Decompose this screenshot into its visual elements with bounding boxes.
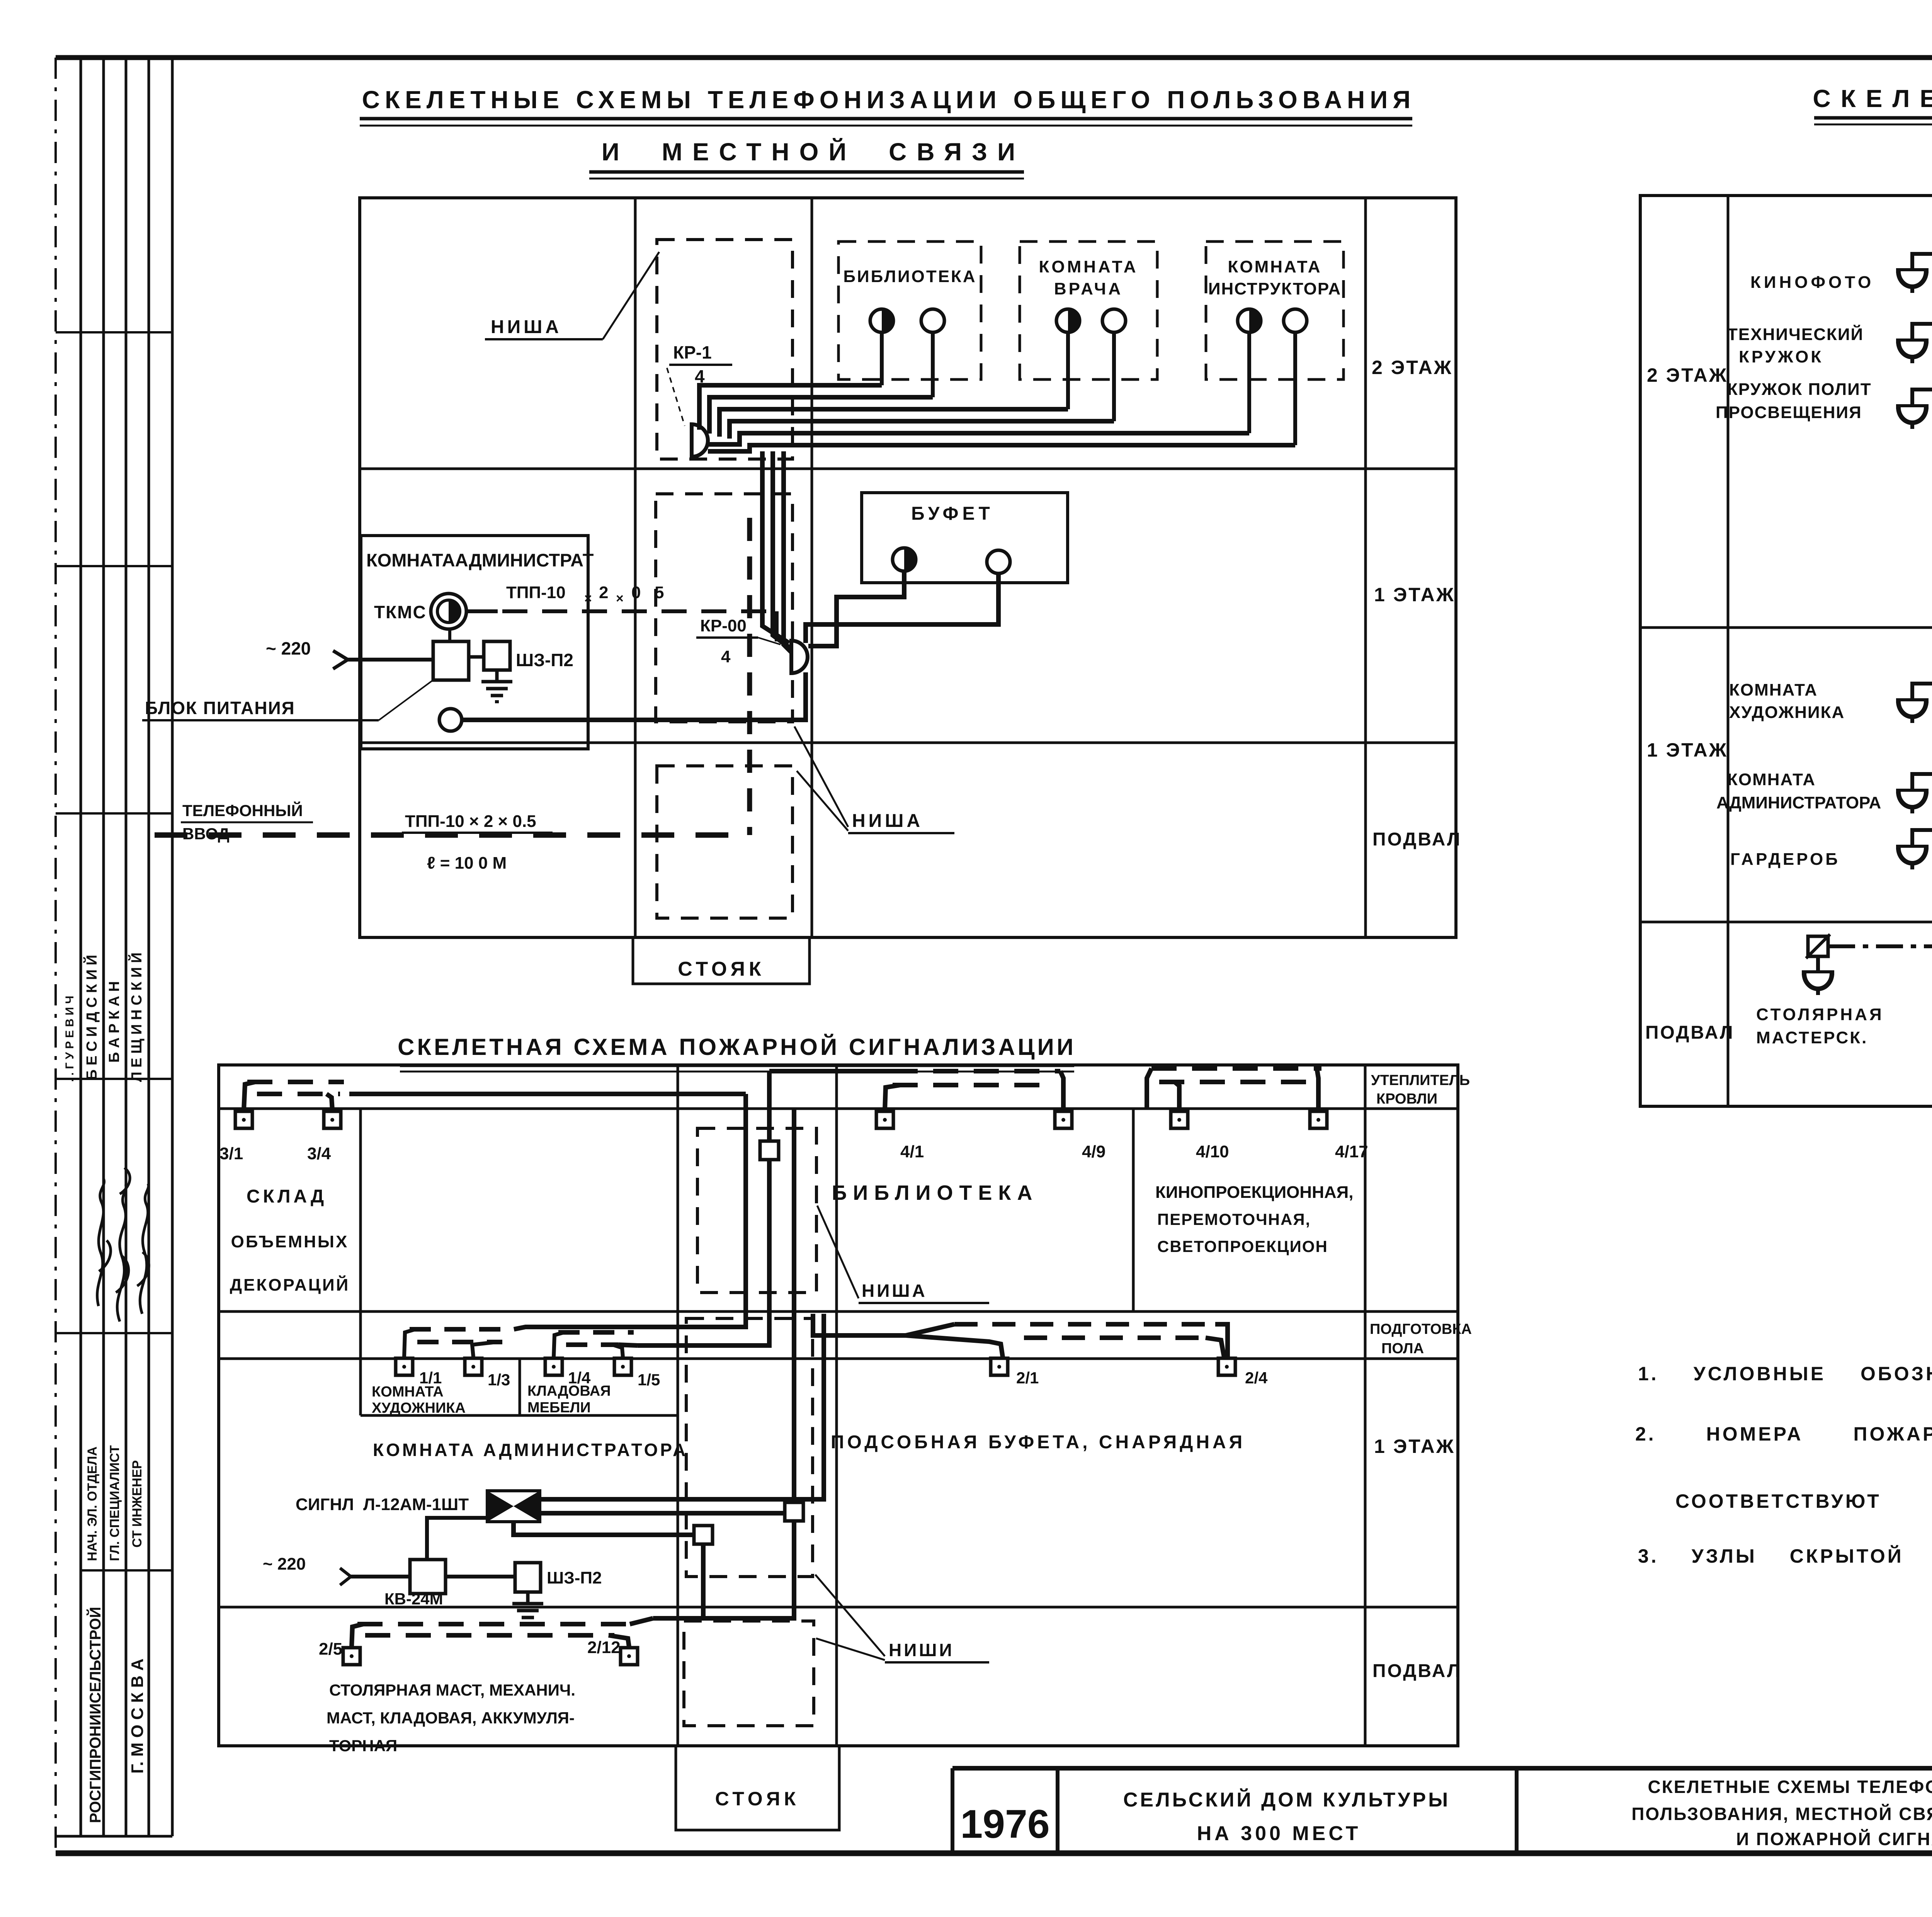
floor prep line bottom: [219, 1357, 1458, 1360]
basement wire: [1828, 944, 1932, 948]
wire Кинофото: [1912, 254, 1932, 270]
svg-text:4/17: 4/17: [1335, 1142, 1368, 1161]
svg-text:ИНСТРУКТОРА: ИНСТРУКТОРА: [1208, 279, 1341, 298]
svg-text:Б Е С И Д С К И Й: Б Е С И Д С К И Й: [83, 955, 100, 1080]
junction KR-00: [791, 641, 808, 673]
svg-text:КОМНАТА: КОМНАТА: [1228, 257, 1322, 276]
detector 4/9: [1055, 1111, 1072, 1128]
svg-text:СКЕЛЕТНАЯ СХЕМА РАДИОФИКАЦИИ: СКЕЛЕТНАЯ СХЕМА РАДИОФИКАЦИИ: [1813, 85, 1932, 112]
floors label column line: [1727, 196, 1730, 1106]
svg-text:2. НОМЕРА ПОЖАРНЫХ ИЗВЕЩАТЕЛЕЙ: 2. НОМЕРА ПОЖАРНЫХ ИЗВЕЩАТЕЛЕЙ НА СХЕМЕ: [1635, 1423, 1932, 1445]
power supply box: [433, 641, 469, 680]
fork to buffet loop: [906, 1324, 954, 1335]
svg-text:КР-1: КР-1: [673, 342, 712, 362]
speaker Кинофото: [1896, 270, 1929, 293]
junction J1: [694, 1526, 713, 1544]
filter box ШЗ-П2: [484, 641, 510, 670]
svg-text:2/4: 2/4: [1245, 1369, 1268, 1387]
detector 2/4: [1218, 1358, 1235, 1375]
svg-text:СТ ИНЖЕНЕР: СТ ИНЖЕНЕР: [130, 1460, 145, 1548]
wire between boxes: [469, 655, 484, 659]
svg-text:4/1: 4/1: [900, 1142, 924, 1161]
wire Кружок полит: [1912, 390, 1932, 407]
title block top rule: [952, 1766, 1932, 1771]
svg-text:1 ЭТАЖ: 1 ЭТАЖ: [1374, 584, 1455, 606]
svg-text:5: 5: [655, 583, 664, 602]
wire 2fl to instructor 2: [708, 445, 1295, 451]
svg-text:Б А Р К А Н: Б А Р К А Н: [106, 981, 122, 1063]
svg-text:ПОЛА: ПОЛА: [1381, 1340, 1424, 1357]
svg-text:ТКМС: ТКМС: [374, 602, 427, 622]
svg-text:МАСТЕРСК.: МАСТЕРСК.: [1756, 1028, 1868, 1047]
buffet room box: [862, 493, 1068, 583]
svg-text:КРУЖОК: КРУЖОК: [1739, 347, 1823, 366]
svg-text:СТОЛЯРНАЯ: СТОЛЯРНАЯ: [1756, 1005, 1884, 1024]
speaker Технический кружок: [1896, 341, 1929, 363]
svg-text:КРОВЛИ: КРОВЛИ: [1376, 1091, 1437, 1107]
svg-text:КЛАДОВАЯ: КЛАДОВАЯ: [527, 1383, 611, 1399]
detector 4/1: [876, 1111, 893, 1128]
floor prep line top: [219, 1310, 1458, 1313]
svg-text:АДМИНИСТРАТОРА: АДМИНИСТРАТОРА: [1716, 793, 1881, 812]
floors label column line: [1364, 1065, 1367, 1746]
room box Комната инструктора: [1206, 242, 1344, 379]
riser column line left: [677, 1065, 679, 1746]
wire KV to bell: [427, 1518, 487, 1560]
local phone circle: [439, 709, 462, 731]
detector 1/5: [614, 1358, 631, 1375]
riser bundle wire b: [773, 451, 791, 648]
signature 1: [97, 1179, 111, 1306]
svg-text:Л Е Щ И Н С К И Й: Л Е Щ И Н С К И Й: [128, 953, 145, 1082]
floor line 2/1: [1640, 626, 1932, 629]
detector 4/10: [1171, 1111, 1188, 1128]
ground under ШЗ-П2: [481, 670, 512, 702]
svg-text:1/5: 1/5: [638, 1371, 660, 1389]
svg-text:СЕЛЬСКИЙ ДОМ КУЛЬТУРЫ: СЕЛЬСКИЙ ДОМ КУЛЬТУРЫ: [1123, 1788, 1450, 1811]
svg-text:КОМНАТА АДМИНИСТРАТОРА: КОМНАТА АДМИНИСТРАТОРА: [373, 1440, 688, 1460]
svg-text:МАСТ, КЛАДОВАЯ, АККУМУЛЯ-: МАСТ, КЛАДОВАЯ, АККУМУЛЯ-: [327, 1709, 575, 1727]
riser column line right: [811, 198, 813, 937]
basement loop dashed: [357, 1622, 630, 1626]
detector 3/1: [235, 1111, 252, 1128]
svg-text:СКЕЛЕТНЫЕ СХЕМЫ ТЕЛЕФОНИЗАЦИИ: СКЕЛЕТНЫЕ СХЕМЫ ТЕЛЕФОНИЗАЦИИ ОБЩЕГО: [1648, 1777, 1932, 1797]
fire niche dashed 1 floor: [686, 1318, 813, 1577]
floor line 2/1: [360, 468, 1456, 470]
svg-text:ДЕКОРАЦИЙ: ДЕКОРАЦИЙ: [230, 1275, 350, 1294]
svg-text:ПОДСОБНАЯ БУФЕТА, СНАРЯДНАЯ: ПОДСОБНАЯ БУФЕТА, СНАРЯДНАЯ: [831, 1432, 1245, 1453]
hook to 4/1: [885, 1085, 900, 1110]
riser bundle wire a: [762, 451, 789, 643]
svg-text:БИБЛИОТЕКА: БИБЛИОТЕКА: [832, 1181, 1039, 1204]
TKMC symbol: [431, 594, 466, 629]
loop 1/4-1/5 dashed: [558, 1330, 634, 1335]
svg-text:3. УЗЛЫ СКРЫТОЙ ПРОВОДКИ ДАНЫ: 3. УЗЛЫ СКРЫТОЙ ПРОВОДКИ ДАНЫ НА ЛИСТЕ С…: [1638, 1545, 1932, 1567]
junction J0: [760, 1141, 779, 1160]
svg-text:2 ЭТАЖ: 2 ЭТАЖ: [1647, 364, 1728, 386]
telephone buffet 2: [987, 550, 1010, 573]
bell symbol: [487, 1491, 514, 1522]
svg-text:×: ×: [616, 591, 624, 606]
fire riser bundle v4: [541, 1314, 824, 1499]
attic loop group 2 dashed: [893, 1069, 1060, 1073]
fire riser bundle v5: [792, 1109, 796, 1502]
sidebar vertical rules: [80, 58, 82, 1836]
svg-text:. . Г У Р Е В И Ч: . . Г У Р Е В И Ч: [63, 996, 76, 1082]
fire riser bundle v2: [638, 1071, 769, 1345]
storeroom column divider: [359, 1109, 362, 1311]
junction KR-1: [692, 424, 708, 457]
svg-text:СВЕТОПРОЕКЦИОН: СВЕТОПРОЕКЦИОН: [1157, 1237, 1328, 1255]
wire Технический кружок: [1912, 324, 1932, 341]
svg-text:СКЕЛЕТНЫЕ СХЕМЫ ТЕЛЕФОНИЗАЦИ: СКЕЛЕТНЫЕ СХЕМЫ ТЕЛЕФОНИЗАЦИИ ОБЩЕГО ПОЛ…: [362, 86, 1415, 114]
J2 down wire: [653, 1521, 794, 1618]
svg-text:2/5: 2/5: [319, 1640, 342, 1658]
svg-text:КОМНАТА: КОМНАТА: [1727, 770, 1816, 789]
svg-text:КОМНАТААДМИНИСТРАТ: КОМНАТААДМИНИСТРАТ: [366, 550, 594, 570]
signature 3: [137, 1184, 149, 1314]
svg-text:1976: 1976: [960, 1802, 1049, 1847]
svg-text:×: ×: [584, 591, 592, 606]
wire 2fl to library 2: [709, 397, 933, 434]
svg-text:СТОЛЯРНАЯ МАСТ, МЕХАНИЧ.: СТОЛЯРНАЯ МАСТ, МЕХАНИЧ.: [329, 1681, 575, 1699]
loop feeds: [514, 1327, 634, 1329]
niche dashed box 1 floor: [656, 494, 793, 722]
floor line 1/basement: [1640, 921, 1932, 924]
detector 1/3: [465, 1358, 482, 1375]
svg-text:НИША: НИША: [852, 811, 923, 831]
svg-text:ВРАЧА: ВРАЧА: [1054, 279, 1123, 298]
svg-text:~ 220: ~ 220: [266, 638, 311, 658]
telephone library 1: [870, 309, 893, 332]
wire 2fl to instructor 1: [708, 433, 1249, 444]
svg-text:ТЕЛЕФОННЫЙ: ТЕЛЕФОННЫЙ: [182, 801, 303, 820]
fire niche dashed box attic: [697, 1128, 816, 1293]
svg-text:КИНОФОТО: КИНОФОТО: [1750, 273, 1874, 292]
svg-text:НАЧ. ЭЛ. ОТДЕЛА: НАЧ. ЭЛ. ОТДЕЛА: [85, 1446, 100, 1561]
detector 3/4: [324, 1111, 341, 1128]
wire local phone to KR-00: [462, 672, 806, 720]
riser bundle wire c: [784, 451, 792, 653]
riser trunk bold dashed: [747, 518, 752, 835]
border top: [56, 55, 1932, 60]
detector 2/1: [991, 1358, 1008, 1375]
svg-text:И МЕСТНОЙ СВЯЗИ: И МЕСТНОЙ СВЯЗИ: [602, 138, 1025, 166]
svg-text:4/9: 4/9: [1082, 1142, 1105, 1161]
svg-text:ТОРНАЯ: ТОРНАЯ: [329, 1737, 397, 1755]
svg-text:2 ЭТАЖ: 2 ЭТАЖ: [1372, 357, 1453, 378]
svg-text:БИБЛИОТЕКА: БИБЛИОТЕКА: [843, 267, 976, 286]
telephone instructor 2: [1284, 309, 1307, 332]
svg-text:1 ЭТАЖ: 1 ЭТАЖ: [1647, 739, 1728, 761]
loop 1/1-1/3 dashed: [410, 1327, 514, 1332]
svg-text:НИША: НИША: [491, 317, 562, 337]
svg-text:2: 2: [599, 583, 608, 602]
attic loop group 3 dashed: [1151, 1066, 1321, 1071]
detector 2/12: [621, 1648, 638, 1665]
wire KV to ШЗ-П2: [446, 1575, 515, 1579]
svg-text:1. УСЛОВНЫЕ ОБОЗНАЧЕНИЯ ДАНЫ Н: 1. УСЛОВНЫЕ ОБОЗНАЧЕНИЯ ДАНЫ НА ЛИСТЕ С-…: [1638, 1363, 1932, 1385]
svg-text:Г. М О С К В А: Г. М О С К В А: [128, 1658, 147, 1774]
svg-text:ПЕРЕМОТОЧНАЯ,: ПЕРЕМОТОЧНАЯ,: [1157, 1210, 1311, 1228]
svg-text:0: 0: [631, 583, 641, 602]
detector 1/1: [396, 1358, 413, 1375]
svg-text:ОБЪЕМНЫХ: ОБЪЕМНЫХ: [231, 1232, 349, 1251]
svg-text:ТЕХНИЧЕСКИЙ: ТЕХНИЧЕСКИЙ: [1727, 324, 1864, 344]
floors label column line: [1364, 198, 1367, 937]
floor line 1/basement: [360, 742, 1456, 744]
1 floor: wire Комната художника: [1912, 684, 1932, 701]
svg-text:ТПП-10 × 2 × 0.5: ТПП-10 × 2 × 0.5: [405, 812, 536, 831]
connector group3 drop: [1147, 1068, 1151, 1109]
wire 2fl to doctor 2: [730, 421, 1114, 439]
svg-text:4/10: 4/10: [1196, 1142, 1229, 1161]
svg-text:ПОДВАЛ: ПОДВАЛ: [1372, 829, 1462, 850]
svg-text:ПРОСВЕЩЕНИЯ: ПРОСВЕЩЕНИЯ: [1716, 403, 1862, 422]
wire Комната администратора: [1912, 774, 1932, 791]
telephone scheme outer frame: [360, 198, 1456, 937]
svg-text:КОМНАТА: КОМНАТА: [372, 1384, 444, 1400]
svg-text:ℓ = 10 0 М: ℓ = 10 0 М: [427, 854, 507, 873]
svg-text:УТЕПЛИТЕЛЬ: УТЕПЛИТЕЛЬ: [1371, 1072, 1470, 1089]
svg-text:1/3: 1/3: [488, 1371, 510, 1389]
riser column line left: [634, 198, 637, 937]
telephone buffet 1: [893, 548, 916, 571]
attic trunk wire b: [769, 1069, 893, 1073]
basement floor line: [219, 1606, 1458, 1609]
fire scheme outer frame: [219, 1065, 1458, 1746]
svg-text:СКЛАД: СКЛАД: [247, 1186, 327, 1207]
svg-text:СТОЯК: СТОЯК: [678, 958, 765, 980]
svg-text:БЛОК ПИТАНИЯ: БЛОК ПИТАНИЯ: [145, 698, 295, 718]
riser column line right: [835, 1065, 838, 1746]
svg-text:НИША: НИША: [862, 1281, 927, 1301]
border left dash-dot: [54, 58, 57, 1853]
svg-text:ПОДВАЛ: ПОДВАЛ: [1645, 1022, 1735, 1043]
svg-text:3/1: 3/1: [219, 1144, 243, 1163]
room box Комната администратора: [361, 536, 588, 749]
svg-text:КОМНАТА: КОМНАТА: [1039, 257, 1138, 276]
svg-text:~ 220: ~ 220: [263, 1555, 306, 1573]
svg-text:СТОЯК: СТОЯК: [715, 1788, 800, 1810]
svg-text:4: 4: [721, 647, 731, 666]
detector 4/17: [1310, 1111, 1327, 1128]
svg-text:ГЛ. СПЕЦИАЛИСТ: ГЛ. СПЕЦИАЛИСТ: [107, 1445, 122, 1561]
riser extension box: [633, 937, 810, 984]
speaker Комната администратора: [1896, 791, 1929, 813]
KV-24M box: [410, 1560, 446, 1594]
basement: transformer P1: [1806, 934, 1830, 958]
riser extension box: [676, 1746, 839, 1830]
wire TKMC to KR-00 dashed with label ТПП-10х2х0,5: [466, 609, 498, 613]
svg-text:КР-00: КР-00: [700, 616, 747, 635]
wire bell bottom to J1: [514, 1522, 694, 1535]
filter box ШЗ-П2 fire: [515, 1563, 541, 1592]
signature 2: [116, 1168, 130, 1322]
svg-text:КИНОПРОЕКЦИОННАЯ,: КИНОПРОЕКЦИОННАЯ,: [1155, 1183, 1353, 1202]
svg-text:2/12: 2/12: [587, 1638, 621, 1657]
svg-text:МЕБЕЛИ: МЕБЕЛИ: [527, 1400, 591, 1416]
svg-text:ПОДГОТОВКА: ПОДГОТОВКА: [1370, 1321, 1472, 1337]
fire niche dashed basement: [684, 1621, 814, 1726]
svg-text:1 ЭТАЖ: 1 ЭТАЖ: [1374, 1436, 1455, 1457]
svg-text:НА 300 МЕСТ: НА 300 МЕСТ: [1197, 1822, 1361, 1845]
svg-text:2/1: 2/1: [1016, 1369, 1039, 1387]
telephone doctor 2: [1102, 309, 1126, 332]
sidebar horizontal dividers: [56, 331, 172, 333]
attic trunk wire a: [349, 1092, 746, 1096]
wire 2fl to library 1: [699, 385, 882, 430]
svg-text:ШЗ-П2: ШЗ-П2: [547, 1568, 602, 1587]
J1 down wire: [701, 1544, 706, 1618]
junction J2: [785, 1502, 803, 1521]
attic ceiling line: [219, 1107, 1458, 1110]
detector 1/4: [545, 1358, 562, 1375]
fire riser bundle v3: [813, 1314, 906, 1335]
svg-text:КОМНАТА: КОМНАТА: [1729, 680, 1818, 699]
niche dashed box basement: [657, 766, 793, 918]
room box Библиотека: [838, 242, 981, 379]
svg-text:СООТВЕТСТВУЮТ НОМЕРАМ НА ПЛАНА: СООТВЕТСТВУЮТ НОМЕРАМ НА ПЛАНАХ: [1675, 1490, 1932, 1512]
telephone entry cable dashed: [155, 832, 749, 838]
svg-text:ПОЛЬЗОВАНИЯ, МЕСТНОЙ СВЯЗИ, РА: ПОЛЬЗОВАНИЯ, МЕСТНОЙ СВЯЗИ, РАДИОФИКАЦИИ: [1631, 1804, 1932, 1824]
speaker Кружок полит: [1896, 407, 1929, 429]
wire Гардероб: [1912, 830, 1932, 847]
telephone instructor 1: [1238, 309, 1261, 332]
speaker Комната художника: [1896, 701, 1929, 723]
attic loop group 1 dashed: [247, 1080, 344, 1084]
buffet loop dashed bottom: [1024, 1335, 1206, 1340]
hook to 3/4: [327, 1094, 332, 1110]
svg-text:НИШИ: НИШИ: [889, 1640, 954, 1660]
detector 2/5: [343, 1648, 360, 1665]
svg-text:СИГНЛ: СИГНЛ: [296, 1495, 354, 1514]
svg-text:3/4: 3/4: [307, 1144, 331, 1163]
niche dashed box 2 floor: [657, 240, 793, 459]
buffet loop dashed top: [954, 1322, 1215, 1327]
hook to 4/17: [1317, 1068, 1318, 1110]
svg-text:КРУЖОК ПОЛИТ: КРУЖОК ПОЛИТ: [1727, 380, 1872, 399]
speaker Гардероб: [1896, 847, 1929, 869]
svg-text:Л-12АМ-1ШТ: Л-12АМ-1ШТ: [363, 1495, 469, 1514]
svg-text:РОСГИПРОНИИСЕЛЬСТРОЙ: РОСГИПРОНИИСЕЛЬСТРОЙ: [86, 1607, 104, 1823]
radio scheme outer frame: [1640, 196, 1932, 1106]
svg-text:ПОДВАЛ: ПОДВАЛ: [1372, 1661, 1462, 1681]
hook to 4/10: [1175, 1082, 1179, 1110]
room box Комната врача: [1020, 242, 1157, 379]
telephone library 2: [921, 309, 944, 332]
hook to 4/9: [1060, 1071, 1063, 1110]
svg-text:СКЕЛЕТНАЯ СХЕМА ПОЖАРНОЙ СИ: СКЕЛЕТНАЯ СХЕМА ПОЖАРНОЙ СИГНАЛИЗАЦИИ: [398, 1034, 1076, 1060]
svg-text:И ПОЖАРНОЙ СИГНАЛИЗАЦИИ: И ПОЖАРНОЙ СИГНАЛИЗАЦИИ: [1736, 1829, 1932, 1849]
sidebar bottom rule: [56, 1835, 172, 1838]
svg-text:ХУДОЖНИКА: ХУДОЖНИКА: [1729, 703, 1845, 722]
svg-text:ШЗ-П2: ШЗ-П2: [516, 650, 573, 670]
svg-text:ГАРДЕРОБ: ГАРДЕРОБ: [1730, 850, 1840, 869]
svg-text:БУФЕТ: БУФЕТ: [911, 503, 994, 524]
svg-text:ХУДОЖНИКА: ХУДОЖНИКА: [372, 1400, 466, 1416]
svg-text:КВ-24М: КВ-24М: [384, 1590, 443, 1608]
title block dividers: [951, 1768, 954, 1853]
wire 2fl to doctor 1: [719, 409, 1068, 437]
border bottom: [56, 1851, 1932, 1856]
wire bell to riser top: [540, 1511, 785, 1516]
hook to 3/1: [244, 1082, 255, 1110]
svg-text:ТПП-10: ТПП-10: [506, 583, 566, 602]
ground under filter fire: [512, 1592, 543, 1624]
speaker Столярная: [1816, 956, 1820, 973]
rooms cells 1 floor: [359, 1311, 362, 1415]
telephone doctor 1: [1056, 309, 1080, 332]
fire riser bundle v1: [634, 1094, 746, 1327]
cinema column divider: [1132, 1109, 1135, 1311]
